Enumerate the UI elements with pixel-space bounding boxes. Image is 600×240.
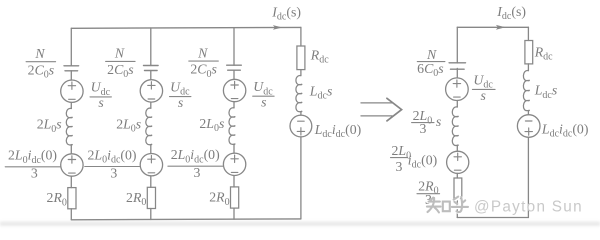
source L_dc i_dc(0) (left circuit) (290, 115, 312, 137)
wire right circuit: top rail to capacitor (456, 27, 458, 63)
capacitor N/2C0s (3rd branch) (227, 65, 242, 70)
source 2L0 i_dc(0)/3 (3rd branch) (223, 153, 245, 175)
wire 2nd branch: source to inductor (150, 102, 152, 108)
resistor 2R0/3 (right circuit) (454, 178, 462, 198)
source L_dc i_dc(0) (right circuit) (517, 115, 540, 138)
wire 3rd branch: capacitor to source (233, 70, 235, 79)
source 2L0 i_dc(0)/3 (2nd branch) (140, 154, 162, 176)
wire right circuit: inductor to source 2L0/3 idc(0) (456, 145, 458, 151)
scan artifact band at bottom (0, 222, 600, 226)
wire 3rd branch: source to inductor (233, 102, 235, 108)
wire 2nd branch: inductor to source 2L0idc(0)/3 (150, 145, 152, 154)
svg-text:3: 3 (31, 166, 38, 181)
wire right circuit: capacitor to source (456, 68, 458, 78)
wire right circuit dc branch: top rail to R_dc (527, 27, 529, 40)
watermark zhihu logo text (428, 198, 469, 214)
wire top rail (left circuit) (71, 26, 301, 29)
svg-text:N: N (34, 46, 45, 61)
current arrow I_dc(s) (right circuit) (496, 25, 506, 30)
svg-text:3: 3 (420, 121, 427, 136)
wire right circuit: source to resistor (456, 173, 458, 178)
resistor R_dc (right circuit) (525, 41, 533, 64)
svg-text:s: s (436, 114, 441, 129)
capacitor N/6C0s (right circuit) (449, 63, 465, 69)
wire right circuit: source to inductor (456, 101, 458, 108)
svg-text:N: N (197, 45, 208, 60)
inductor L_dc s (right circuit) (523, 70, 529, 110)
voltage source U_dc/s (2nd branch) (140, 80, 162, 102)
inductor 2L0s (3rd branch) (229, 108, 235, 145)
wire dc branch: L_dc to source (300, 112, 302, 116)
voltage source U_dc/s (3rd branch) (223, 79, 245, 101)
wire dc branch: source to bottom rail (300, 137, 302, 219)
inductor 2L0/3 s (right circuit) (452, 107, 458, 146)
wire 2nd branch: top rail to capacitor (150, 28, 152, 66)
wire 1st branch: source to inductor (70, 102, 72, 108)
svg-text:s: s (98, 95, 103, 110)
voltage source U_dc/s (1st branch) (61, 80, 83, 102)
wire right circuit dc branch: source to bottom rail (527, 137, 529, 217)
svg-text:3: 3 (110, 165, 117, 180)
svg-text:s: s (481, 88, 486, 103)
wire 2nd branch: source to resistor (150, 176, 152, 187)
resistor 2R0 (2nd branch) (147, 187, 155, 208)
wire 1st branch: top rail to capacitor (70, 28, 72, 66)
svg-text:@Payton Sun: @Payton Sun (474, 199, 583, 216)
wire 3rd branch: top rail to capacitor (233, 28, 235, 65)
wire dc branch: top rail to R_dc (300, 27, 302, 46)
equivalence arrow (double arrow) (361, 98, 402, 121)
voltage source U_dc/s (right circuit) (446, 78, 469, 101)
inductor 2L0s (1st branch) (66, 108, 72, 145)
wire 3rd branch: resistor to bottom rail (233, 208, 235, 219)
svg-text:s: s (178, 95, 183, 110)
resistor R_dc (left circuit) (297, 46, 305, 70)
wire 1st branch: resistor to bottom rail (70, 209, 72, 220)
svg-text:3: 3 (194, 165, 201, 180)
wire top rail (right circuit) (457, 26, 528, 28)
wire right circuit dc branch: L_dc to source (527, 111, 529, 115)
capacitor N/2C0s (1st branch) (64, 66, 79, 71)
inductor L_dc s (left circuit) (296, 75, 302, 111)
wire right circuit: resistor to bottom rail (456, 198, 458, 217)
source 2L0/3 i_dc(0) (right circuit) (447, 151, 469, 173)
wire 1st branch: inductor to source 2L0idc(0)/3 (70, 145, 72, 154)
wire 2nd branch: resistor to bottom rail (150, 209, 152, 220)
wire bottom rail (right circuit) (457, 217, 528, 219)
resistor 2R0 (1st branch) (68, 188, 76, 209)
inductor 2L0s (2nd branch) (146, 108, 152, 145)
source 2L0 i_dc(0)/3 (1st branch) (61, 154, 83, 176)
wire bottom rail (left circuit) (71, 218, 301, 221)
wire 3rd branch: source to resistor (233, 176, 235, 187)
wire dc branch: R_dc to L_dc (300, 70, 302, 76)
wire right circuit dc branch: R_dc to L_dc (527, 64, 529, 71)
wire 1st branch: capacitor to source (70, 71, 72, 80)
svg-text:3: 3 (396, 159, 403, 174)
wire 1st branch: source to resistor (70, 176, 72, 187)
resistor 2R0 (3rd branch) (231, 187, 239, 208)
svg-text:N: N (114, 46, 125, 61)
current arrow I_dc(s) (left circuit) (273, 25, 283, 30)
wire 3rd branch: inductor to source 2L0idc(0)/3 (233, 144, 235, 153)
wire 2nd branch: capacitor to source (150, 71, 152, 80)
capacitor N/2C0s (2nd branch) (144, 66, 159, 71)
svg-text:s: s (261, 94, 266, 109)
